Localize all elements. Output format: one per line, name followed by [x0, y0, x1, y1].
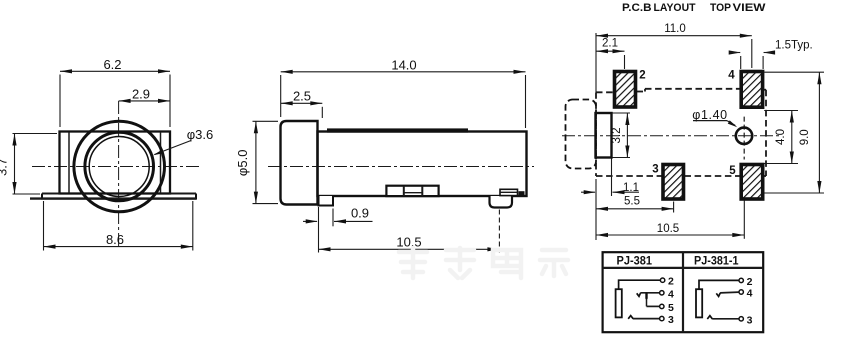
svg-text:2.5: 2.5 — [293, 89, 311, 104]
svg-text:14.0: 14.0 — [391, 57, 416, 72]
svg-text:2.1: 2.1 — [602, 38, 618, 50]
svg-text:φ1.40: φ1.40 — [692, 108, 727, 122]
svg-text:φ5.0: φ5.0 — [235, 150, 250, 177]
svg-text:VIEW: VIEW — [733, 2, 767, 14]
svg-text:4: 4 — [747, 288, 753, 300]
svg-text:TOP: TOP — [710, 2, 731, 14]
svg-text:PJ-381-1: PJ-381-1 — [694, 254, 739, 268]
svg-text:10.5: 10.5 — [396, 234, 421, 249]
svg-text:P.C.B: P.C.B — [622, 2, 652, 14]
svg-text:6.2: 6.2 — [103, 57, 121, 72]
svg-text:PJ-381: PJ-381 — [617, 253, 653, 267]
svg-text:φ3.6: φ3.6 — [187, 127, 214, 142]
svg-text:3.7: 3.7 — [0, 158, 10, 176]
svg-text:5: 5 — [729, 165, 736, 177]
svg-text:3: 3 — [652, 164, 658, 176]
svg-text:4: 4 — [668, 288, 674, 300]
svg-text:10.5: 10.5 — [657, 223, 679, 235]
svg-text:8.6: 8.6 — [106, 232, 124, 247]
svg-text:11.0: 11.0 — [664, 23, 686, 35]
svg-text:3: 3 — [747, 314, 753, 326]
svg-text:5: 5 — [668, 302, 674, 314]
svg-text:4.0: 4.0 — [775, 129, 787, 145]
svg-text:0.9: 0.9 — [351, 205, 369, 220]
svg-text:3.2: 3.2 — [611, 128, 623, 144]
svg-text:5.5: 5.5 — [624, 196, 640, 208]
svg-text:2: 2 — [668, 276, 674, 288]
svg-text:1.5Typ.: 1.5Typ. — [775, 40, 813, 52]
svg-text:1.1: 1.1 — [623, 182, 639, 194]
svg-text:LAYOUT: LAYOUT — [654, 2, 696, 14]
svg-text:3: 3 — [668, 314, 674, 326]
svg-text:2: 2 — [747, 276, 753, 288]
svg-text:4: 4 — [728, 70, 735, 82]
svg-text:2.9: 2.9 — [132, 86, 150, 101]
svg-text:2: 2 — [639, 70, 645, 82]
svg-text:9.0: 9.0 — [799, 129, 811, 145]
